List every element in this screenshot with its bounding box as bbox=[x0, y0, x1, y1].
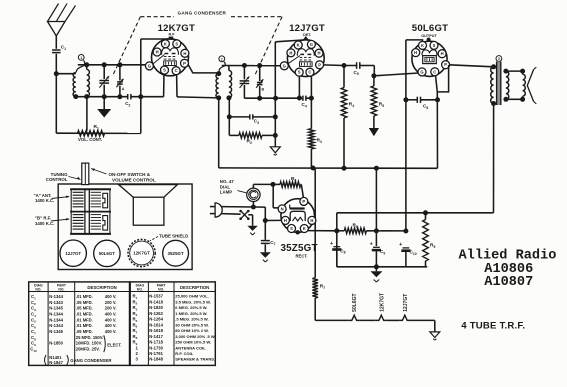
output transformer core bbox=[497, 62, 501, 106]
resistor R6 bbox=[280, 182, 301, 188]
ground at switch bbox=[247, 226, 258, 231]
svg-text:12J7GT: 12J7GT bbox=[65, 251, 81, 256]
capacitor C7 with ground bbox=[264, 221, 266, 240]
svg-text:P: P bbox=[183, 61, 186, 66]
line to R7 bbox=[314, 168, 316, 278]
svg-text:12K7GT: 12K7GT bbox=[133, 251, 150, 256]
svg-text:DET.: DET. bbox=[303, 33, 311, 37]
transformer secondary winding bbox=[503, 69, 508, 74]
wire 50L6GT bottom pin down bbox=[436, 75, 438, 92]
svg-text:ELECT.: ELECT. bbox=[107, 343, 121, 348]
svg-text:NO.: NO. bbox=[158, 287, 164, 291]
svg-text:3.5 MEG. 20%.5 W.: 3.5 MEG. 20%.5 W. bbox=[175, 299, 211, 304]
svg-text:A10807: A10807 bbox=[484, 275, 533, 290]
svg-text:P: P bbox=[302, 199, 305, 204]
chassis layout box bbox=[58, 184, 192, 270]
svg-text:H: H bbox=[156, 50, 159, 55]
resistor R7 bbox=[312, 278, 318, 298]
dial lamp NO.47 bbox=[247, 188, 260, 201]
svg-text:S: S bbox=[298, 70, 301, 75]
heater line from plug bbox=[253, 206, 265, 208]
svg-text:N-1344: N-1344 bbox=[49, 311, 63, 316]
trimmer capacitor B bbox=[259, 66, 261, 82]
svg-text:P: P bbox=[444, 62, 447, 67]
svg-text:1 MEG. 20%.5 W.: 1 MEG. 20%.5 W. bbox=[175, 311, 207, 316]
svg-text:S: S bbox=[175, 41, 178, 46]
speaker voice coil bbox=[523, 74, 526, 96]
node 1 antenna coil label bbox=[78, 55, 84, 61]
svg-text:VOLUME CONTROL: VOLUME CONTROL bbox=[112, 178, 156, 183]
svg-text:A: A bbox=[122, 87, 125, 91]
svg-text:ON-OFF SWITCH &: ON-OFF SWITCH & bbox=[109, 172, 151, 177]
ground filament end bbox=[434, 320, 436, 332]
gang condenser section B (variable capacitor) bbox=[243, 66, 245, 80]
resistor R4 bbox=[343, 66, 345, 88]
svg-text:C: C bbox=[433, 69, 436, 74]
svg-text:S: S bbox=[290, 226, 293, 231]
svg-text:GANG CONDENSER: GANG CONDENSER bbox=[178, 11, 227, 16]
plate wire 12K7GT bbox=[188, 64, 219, 73]
grid-cap vertical 12K7GT bbox=[140, 39, 142, 133]
filter bottom wire with ground bbox=[337, 266, 427, 268]
svg-text:N1401: N1401 bbox=[49, 355, 62, 360]
svg-text:N-1718: N-1718 bbox=[149, 340, 163, 345]
speaker cone bbox=[527, 70, 533, 102]
svg-text:12J7GT: 12J7GT bbox=[403, 294, 409, 312]
svg-text:1: 1 bbox=[80, 56, 82, 60]
grid cap vertical 12J7GT with ground bbox=[274, 42, 276, 147]
ground tank1 bbox=[103, 97, 105, 109]
svg-text:N-1791: N-1791 bbox=[149, 351, 163, 356]
svg-text:B: B bbox=[262, 87, 265, 91]
tank2 bottom rail bbox=[244, 97, 302, 99]
svg-text:H: H bbox=[284, 218, 287, 223]
tuning shaft bbox=[82, 163, 89, 185]
svg-text:N-1850: N-1850 bbox=[49, 341, 63, 346]
svg-text:N-1344: N-1344 bbox=[49, 317, 63, 322]
svg-text:+: + bbox=[330, 241, 333, 247]
svg-text:N-1730: N-1730 bbox=[149, 345, 163, 350]
svg-text:S: S bbox=[163, 68, 166, 73]
svg-text:R.F. COIL: R.F. COIL bbox=[175, 351, 194, 356]
speaker (top view) bbox=[119, 185, 178, 198]
gang condenser section A (variable capacitor) bbox=[103, 65, 105, 79]
svg-text:400 V.: 400 V. bbox=[105, 294, 117, 299]
capacitor C2 bbox=[127, 94, 129, 99]
svg-text:25,000 OHM VOL.: 25,000 OHM VOL. bbox=[175, 294, 209, 299]
svg-text:H: H bbox=[310, 218, 313, 223]
filament string wire bbox=[315, 319, 349, 321]
svg-text:N-1847: N-1847 bbox=[49, 360, 63, 365]
svg-text:.01 MFD.: .01 MFD. bbox=[76, 323, 93, 328]
capacitor C5 bbox=[344, 65, 357, 67]
filter box top wire bbox=[336, 213, 338, 267]
svg-text:H: H bbox=[183, 51, 186, 56]
capacitor C10 electrolytic bbox=[403, 247, 410, 249]
svg-text:N-1417: N-1417 bbox=[149, 334, 163, 339]
B+ rail wire bbox=[219, 167, 438, 169]
wires 12K7GT bottom pins bbox=[163, 73, 165, 96]
RF coil primary winding bbox=[216, 74, 219, 98]
tube socket circles bbox=[60, 240, 86, 266]
resistor R9 bbox=[425, 213, 427, 220]
svg-text:200 V.: 200 V. bbox=[105, 306, 117, 311]
plate wire 12J7GT bbox=[323, 64, 344, 67]
capacitor C3 bbox=[228, 98, 230, 117]
svg-text:20MFD. 25V.: 20MFD. 25V. bbox=[76, 346, 100, 351]
svg-text:.05 MFD.: .05 MFD. bbox=[76, 329, 93, 334]
svg-text:H: H bbox=[441, 51, 444, 56]
svg-text:G: G bbox=[148, 63, 151, 68]
svg-text:C: C bbox=[175, 68, 178, 73]
svg-text:G: G bbox=[310, 42, 313, 47]
capacitor C6 bbox=[406, 99, 417, 101]
svg-text:.01 MFD.: .01 MFD. bbox=[76, 311, 93, 316]
svg-text:6 MEG. 20%.5 W.: 6 MEG. 20%.5 W. bbox=[175, 305, 207, 310]
svg-text:DESCRIPTION: DESCRIPTION bbox=[87, 285, 116, 290]
svg-text:TUBE SHIELD: TUBE SHIELD bbox=[159, 234, 188, 239]
transformer primary winding bbox=[491, 64, 496, 69]
svg-text:VOL. CONT.: VOL. CONT. bbox=[78, 137, 102, 142]
svg-text:12K7GT: 12K7GT bbox=[379, 293, 385, 312]
antenna coil primary winding bbox=[73, 73, 76, 97]
svg-text:S: S bbox=[433, 43, 436, 48]
svg-text:2: 2 bbox=[221, 57, 223, 61]
svg-text:N-1264: N-1264 bbox=[149, 317, 163, 322]
resistor R1 volume control bbox=[78, 131, 105, 137]
svg-text:SPEAKER & TRANS.: SPEAKER & TRANS. bbox=[175, 357, 215, 362]
svg-text:K: K bbox=[303, 226, 306, 231]
svg-text:N-1848: N-1848 bbox=[149, 357, 163, 362]
svg-text:N-1262: N-1262 bbox=[149, 311, 163, 316]
svg-text:1400 K.C.: 1400 K.C. bbox=[35, 198, 54, 203]
parts table bbox=[29, 282, 130, 366]
svg-text:400 V.: 400 V. bbox=[105, 311, 117, 316]
svg-text:.01 MFD.: .01 MFD. bbox=[76, 317, 93, 322]
svg-text:.05 MFD.: .05 MFD. bbox=[76, 300, 93, 305]
wire antenna down bbox=[55, 54, 57, 74]
cathode output wire bbox=[308, 230, 337, 232]
wire transformer to filter bbox=[493, 104, 495, 213]
svg-text:R.F: R.F bbox=[168, 32, 175, 36]
svg-text:35Z5GT: 35Z5GT bbox=[281, 243, 318, 254]
svg-text:G: G bbox=[283, 63, 286, 68]
svg-text:3: 3 bbox=[498, 57, 500, 61]
svg-text:4 TUBE T.R.F.: 4 TUBE T.R.F. bbox=[461, 320, 525, 331]
svg-text:N-1830: N-1830 bbox=[149, 305, 163, 310]
svg-text:400 V.: 400 V. bbox=[105, 317, 117, 322]
svg-text:N-1344: N-1344 bbox=[49, 294, 63, 299]
svg-text:CONTROL: CONTROL bbox=[46, 177, 68, 182]
svg-text:80 OHM 10% 2 W.: 80 OHM 10% 2 W. bbox=[175, 328, 209, 333]
RF coil secondary winding bbox=[228, 66, 230, 71]
tank1 bottom rail bbox=[76, 96, 128, 98]
tube 12K7GT with shield bbox=[128, 239, 155, 266]
capacitor C1 bbox=[52, 49, 61, 51]
svg-text:H: H bbox=[414, 50, 417, 55]
svg-text:+: + bbox=[399, 242, 402, 248]
svg-text:N-1618: N-1618 bbox=[149, 328, 163, 333]
svg-text:N-1537: N-1537 bbox=[149, 294, 163, 299]
antenna coil secondary winding bbox=[86, 65, 88, 70]
svg-text:400 V.: 400 V. bbox=[105, 329, 117, 334]
tube 35Z5GT (rectifier) bbox=[281, 199, 315, 233]
gang condenser unit (top view) bbox=[70, 188, 111, 190]
resistor R8 bbox=[344, 228, 366, 234]
cathode wire 50L6GT to C6 bbox=[406, 40, 423, 42]
plate wire 50L6GT bbox=[449, 65, 494, 67]
wire C5 to 50L6GT grid bbox=[374, 66, 418, 76]
svg-text:K: K bbox=[421, 43, 424, 48]
svg-text:.5 MEG. 20%.5 W.: .5 MEG. 20%.5 W. bbox=[175, 317, 208, 322]
svg-text:+: + bbox=[370, 242, 373, 248]
svg-text:35Z5GT: 35Z5GT bbox=[168, 251, 184, 256]
svg-text:200 V.: 200 V. bbox=[105, 300, 117, 305]
svg-text:RECT.: RECT. bbox=[296, 253, 308, 258]
svg-text:12K7GT: 12K7GT bbox=[158, 23, 195, 34]
node 3 speaker transformer label bbox=[496, 56, 502, 62]
svg-text:400 V.: 400 V. bbox=[105, 323, 117, 328]
capacitor C9 electrolytic bbox=[375, 168, 377, 246]
svg-text:50L6GT: 50L6GT bbox=[412, 23, 448, 34]
svg-text:25 MFD. 150V.: 25 MFD. 150V. bbox=[76, 335, 103, 340]
svg-text:N-1344: N-1344 bbox=[49, 323, 63, 328]
wires 12J7GT bottom: C4 and R3 bbox=[298, 76, 300, 98]
svg-text:NO.: NO. bbox=[137, 287, 143, 291]
svg-text:N-1343: N-1343 bbox=[49, 300, 63, 305]
svg-text:N-1614: N-1614 bbox=[149, 322, 163, 327]
svg-text:OUTPUT: OUTPUT bbox=[421, 34, 437, 38]
svg-text:N-1346: N-1346 bbox=[49, 329, 63, 334]
bottom rail / volume line bbox=[56, 132, 141, 134]
svg-text:10MFD. 150V.: 10MFD. 150V. bbox=[76, 341, 102, 346]
svg-text:C: C bbox=[308, 70, 311, 75]
svg-text:GANG CONDENSER: GANG CONDENSER bbox=[70, 358, 111, 363]
resistor R2 bbox=[228, 117, 230, 135]
grid rail tank2 bbox=[222, 65, 281, 67]
capacitor C8 electrolytic bbox=[333, 246, 340, 248]
grid rail tank1 bbox=[78, 64, 146, 66]
svg-text:3,000 OHM 20% .5 W: 3,000 OHM 20% .5 W bbox=[175, 334, 215, 339]
svg-text:DESCRIPTION: DESCRIPTION bbox=[180, 285, 209, 290]
trimmer capacitor A bbox=[119, 65, 121, 81]
capacitor C4 bbox=[302, 96, 304, 101]
node 2 RF coil label bbox=[219, 56, 225, 62]
on-off switch bbox=[222, 213, 241, 216]
svg-text:G: G bbox=[420, 69, 423, 74]
svg-text:.01 MFD.: .01 MFD. bbox=[76, 294, 93, 299]
resistor R5 with B- arrow bbox=[373, 76, 375, 86]
svg-text:K: K bbox=[164, 41, 167, 46]
svg-text:N-1345: N-1345 bbox=[49, 306, 63, 311]
heater tap wire bbox=[272, 184, 274, 207]
svg-text:.05 MFD.: .05 MFD. bbox=[76, 306, 93, 311]
svg-text:H: H bbox=[317, 51, 320, 56]
svg-text:250 OHM 10%.5 W.: 250 OHM 10%.5 W. bbox=[175, 340, 211, 345]
svg-text:1400 K.C.: 1400 K.C. bbox=[35, 221, 54, 226]
svg-text:ANTENNA COIL: ANTENNA COIL bbox=[175, 345, 206, 350]
svg-text:K: K bbox=[297, 43, 300, 48]
AC power plug bbox=[210, 206, 222, 208]
svg-text:LAMP: LAMP bbox=[220, 190, 233, 195]
svg-text:50L6GT: 50L6GT bbox=[352, 293, 358, 311]
svg-text:NO.: NO. bbox=[58, 287, 64, 291]
svg-text:NO.: NO. bbox=[35, 287, 41, 291]
svg-text:30 OHM 20%.5 W.: 30 OHM 20%.5 W. bbox=[175, 322, 209, 327]
svg-text:H: H bbox=[289, 50, 292, 55]
antenna bbox=[48, 22, 66, 37]
svg-text:P: P bbox=[318, 62, 321, 67]
svg-text:50L6GT: 50L6GT bbox=[99, 251, 115, 256]
svg-text:N: N bbox=[281, 206, 284, 211]
svg-text:N-1418: N-1418 bbox=[149, 299, 163, 304]
resistor R3 bbox=[310, 76, 312, 129]
